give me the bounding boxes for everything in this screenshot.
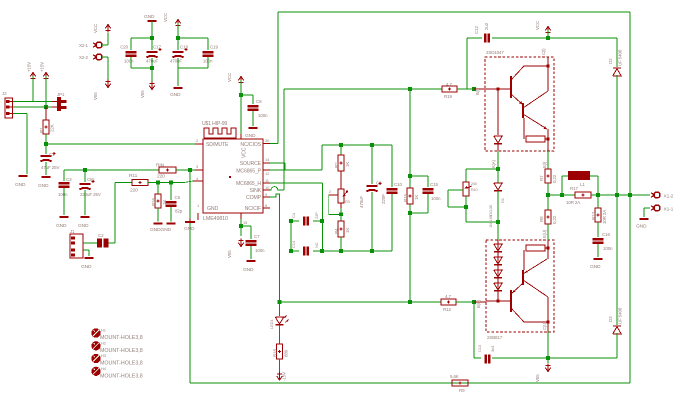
svg-text:GND: GND [590,264,601,270]
svg-text:R18: R18 [273,349,278,357]
svg-text:V55: V55 [227,250,232,258]
svg-text:-15V: -15V [282,372,287,381]
svg-text:+15V: +15V [27,62,32,72]
svg-text:MC6865_P: MC6865_P [236,169,261,175]
svg-text:GND: GND [184,226,195,232]
svg-text:2: 2 [329,190,331,194]
svg-text:VCC: VCC [227,72,232,82]
svg-text:1: 1 [197,203,200,208]
svg-text:H1: H1 [101,328,107,333]
svg-text:2SD1047: 2SD1047 [486,50,504,55]
svg-text:C3: C3 [66,177,72,182]
svg-text:NC/CIOS: NC/CIOS [240,142,261,148]
svg-text:SINK: SINK [249,188,261,194]
svg-text:GND: GND [245,133,256,139]
svg-text:R15: R15 [403,194,408,202]
svg-text:22K: 22K [50,124,55,132]
svg-text:220: 220 [130,188,138,194]
svg-text:100n: 100n [603,246,613,251]
svg-text:R13: R13 [591,212,596,220]
svg-text:MOUNT-HOLE3,8: MOUNT-HOLE3,8 [100,348,143,354]
svg-text:10: 10 [265,185,270,190]
svg-text:22P: 22P [314,212,319,219]
svg-text:30: 30 [265,138,270,143]
svg-text:RIN: RIN [156,163,165,169]
svg-text:C9: C9 [376,181,382,186]
svg-text:R7: R7 [539,175,544,181]
svg-text:GND: GND [144,14,155,20]
svg-text:R17: R17 [570,186,578,191]
svg-text:E(U): E(U) [542,229,547,238]
svg-text:C18: C18 [180,45,188,50]
svg-text:X1-2: X1-2 [664,194,674,200]
svg-text:COMP: COMP [246,195,262,201]
svg-text:100n: 100n [255,248,265,253]
svg-text:1K: 1K [345,228,350,233]
svg-text:100n: 100n [58,192,68,197]
svg-text:R8: R8 [539,216,544,222]
svg-text:C16: C16 [602,232,610,237]
svg-text:470uF: 470uF [170,59,182,64]
svg-text:200: 200 [471,182,477,186]
svg-text:5,6K: 5,6K [450,374,459,379]
svg-text:1K: 1K [345,162,350,167]
svg-text:GND: GND [38,183,49,189]
svg-text:15: 15 [243,220,248,225]
svg-text:R11: R11 [129,173,138,179]
svg-text:C14: C14 [291,240,296,248]
svg-text:C4: C4 [291,212,296,218]
svg-text:VCC: VCC [535,20,540,30]
svg-text:GND: GND [170,92,181,98]
svg-text:R19: R19 [444,94,452,99]
svg-text:LED1: LED1 [269,319,274,329]
svg-text:100n: 100n [124,59,134,64]
svg-text:GND: GND [207,206,218,212]
svg-text:SD/MUTE: SD/MUTE [206,142,229,148]
svg-text:10R 2A: 10R 2A [566,200,580,205]
svg-text:GND: GND [243,267,254,273]
svg-text:R1: R1 [39,127,44,133]
svg-text:C19: C19 [210,45,218,50]
svg-text:C8: C8 [256,99,262,104]
svg-text:V55: V55 [535,374,540,382]
svg-text:220P: 220P [381,194,386,204]
svg-text:10R 2A: 10R 2A [602,210,607,224]
svg-text:9: 9 [265,192,268,197]
svg-text:100n: 100n [258,113,268,118]
svg-text:C7: C7 [254,234,260,239]
svg-text:2SB817: 2SB817 [487,335,503,340]
svg-text:680: 680 [284,349,289,357]
svg-text:1K: 1K [414,195,419,200]
svg-text:C15: C15 [430,182,438,187]
svg-text:V55: V55 [140,90,145,98]
svg-text:K(A): K(A) [491,159,496,168]
svg-text:R9: R9 [459,388,465,393]
svg-text:D3: D3 [608,316,613,322]
svg-text:470uF: 470uF [359,196,364,208]
svg-text:220uF 25V: 220uF 25V [80,192,101,197]
svg-text:D2: D2 [608,58,613,64]
svg-text:MOUNT-HOLE3,8: MOUNT-HOLE3,8 [100,335,143,341]
svg-text:X2-1: X2-1 [79,43,89,48]
svg-text:4: 4 [196,176,199,181]
svg-text:NC: NC [314,242,319,248]
svg-text:82p: 82p [175,209,183,214]
svg-text:6: 6 [265,203,268,208]
svg-text:J2: J2 [2,91,7,96]
svg-text:UF 5408: UF 5408 [618,49,623,66]
svg-text:2u2: 2u2 [484,22,489,30]
svg-text:0,22: 0,22 [552,174,557,183]
svg-text:47uF 25V: 47uF 25V [41,165,59,170]
svg-text:D1: D1 [500,197,505,203]
svg-text:B(U): B(U) [476,299,481,308]
svg-text:MOUNT-HOLE3,8: MOUNT-HOLE3,8 [100,374,143,380]
svg-text:R3: R3 [345,200,350,204]
svg-text:UF 5408: UF 5408 [618,307,623,324]
svg-text:MOUNT-HOLE3,8: MOUNT-HOLE3,8 [100,361,143,367]
svg-text:+15V: +15V [40,62,45,72]
svg-text:VCC: VCC [93,23,98,33]
svg-text:U$1 HIP-99: U$1 HIP-99 [202,121,227,127]
svg-text:3n3: 3n3 [490,345,495,352]
svg-text:GND: GND [81,264,92,270]
svg-text:R4: R4 [334,228,339,234]
svg-text:100n: 100n [431,196,441,201]
svg-text:C20: C20 [120,45,128,50]
svg-text:VCC: VCC [242,147,248,158]
svg-text:GND: GND [15,182,26,188]
svg-text:GNDGND: GNDGND [150,227,171,233]
svg-text:C13: C13 [477,344,482,352]
svg-text:B(I): B(I) [475,88,480,95]
svg-text:J1: J1 [70,229,75,234]
svg-text:GND: GND [56,223,67,229]
svg-text:3: 3 [196,164,199,169]
svg-text:R16: R16 [151,198,156,206]
svg-text:2: 2 [196,138,199,143]
svg-text:14: 14 [265,157,270,162]
svg-text:GND: GND [78,223,89,229]
svg-text:C10: C10 [394,182,402,187]
svg-text:NC/CIF: NC/CIF [245,206,261,212]
svg-text:VCC: VCC [163,12,168,22]
svg-text:MC6865_H: MC6865_H [236,181,261,187]
svg-text:1N4148DO-35: 1N4148DO-35 [489,205,493,228]
svg-text:LME49810: LME49810 [203,216,228,222]
svg-text:C(I): C(I) [541,48,546,55]
svg-text:C2: C2 [98,233,104,238]
svg-text:C1: C1 [49,152,55,157]
svg-text:R2: R2 [334,162,339,168]
svg-text:E(I): E(I) [542,161,547,168]
svg-text:C12: C12 [474,26,479,34]
svg-text:11: 11 [265,178,270,183]
svg-text:X2-2: X2-2 [79,55,89,60]
svg-text:220: 220 [157,174,165,180]
svg-text:GND: GND [636,224,647,230]
svg-text:JP1: JP1 [57,92,65,97]
svg-text:0,22: 0,22 [552,215,557,224]
svg-text:SOURCE: SOURCE [240,161,262,167]
svg-text:4.7: 4.7 [445,294,451,299]
svg-text:C5: C5 [175,195,181,200]
svg-text:R12: R12 [443,307,451,312]
svg-text:V55: V55 [93,92,98,100]
svg-text:X1-1: X1-1 [664,207,674,213]
svg-text:L1: L1 [580,182,585,187]
svg-text:R10: R10 [471,188,478,192]
svg-text:12: 12 [265,171,270,176]
